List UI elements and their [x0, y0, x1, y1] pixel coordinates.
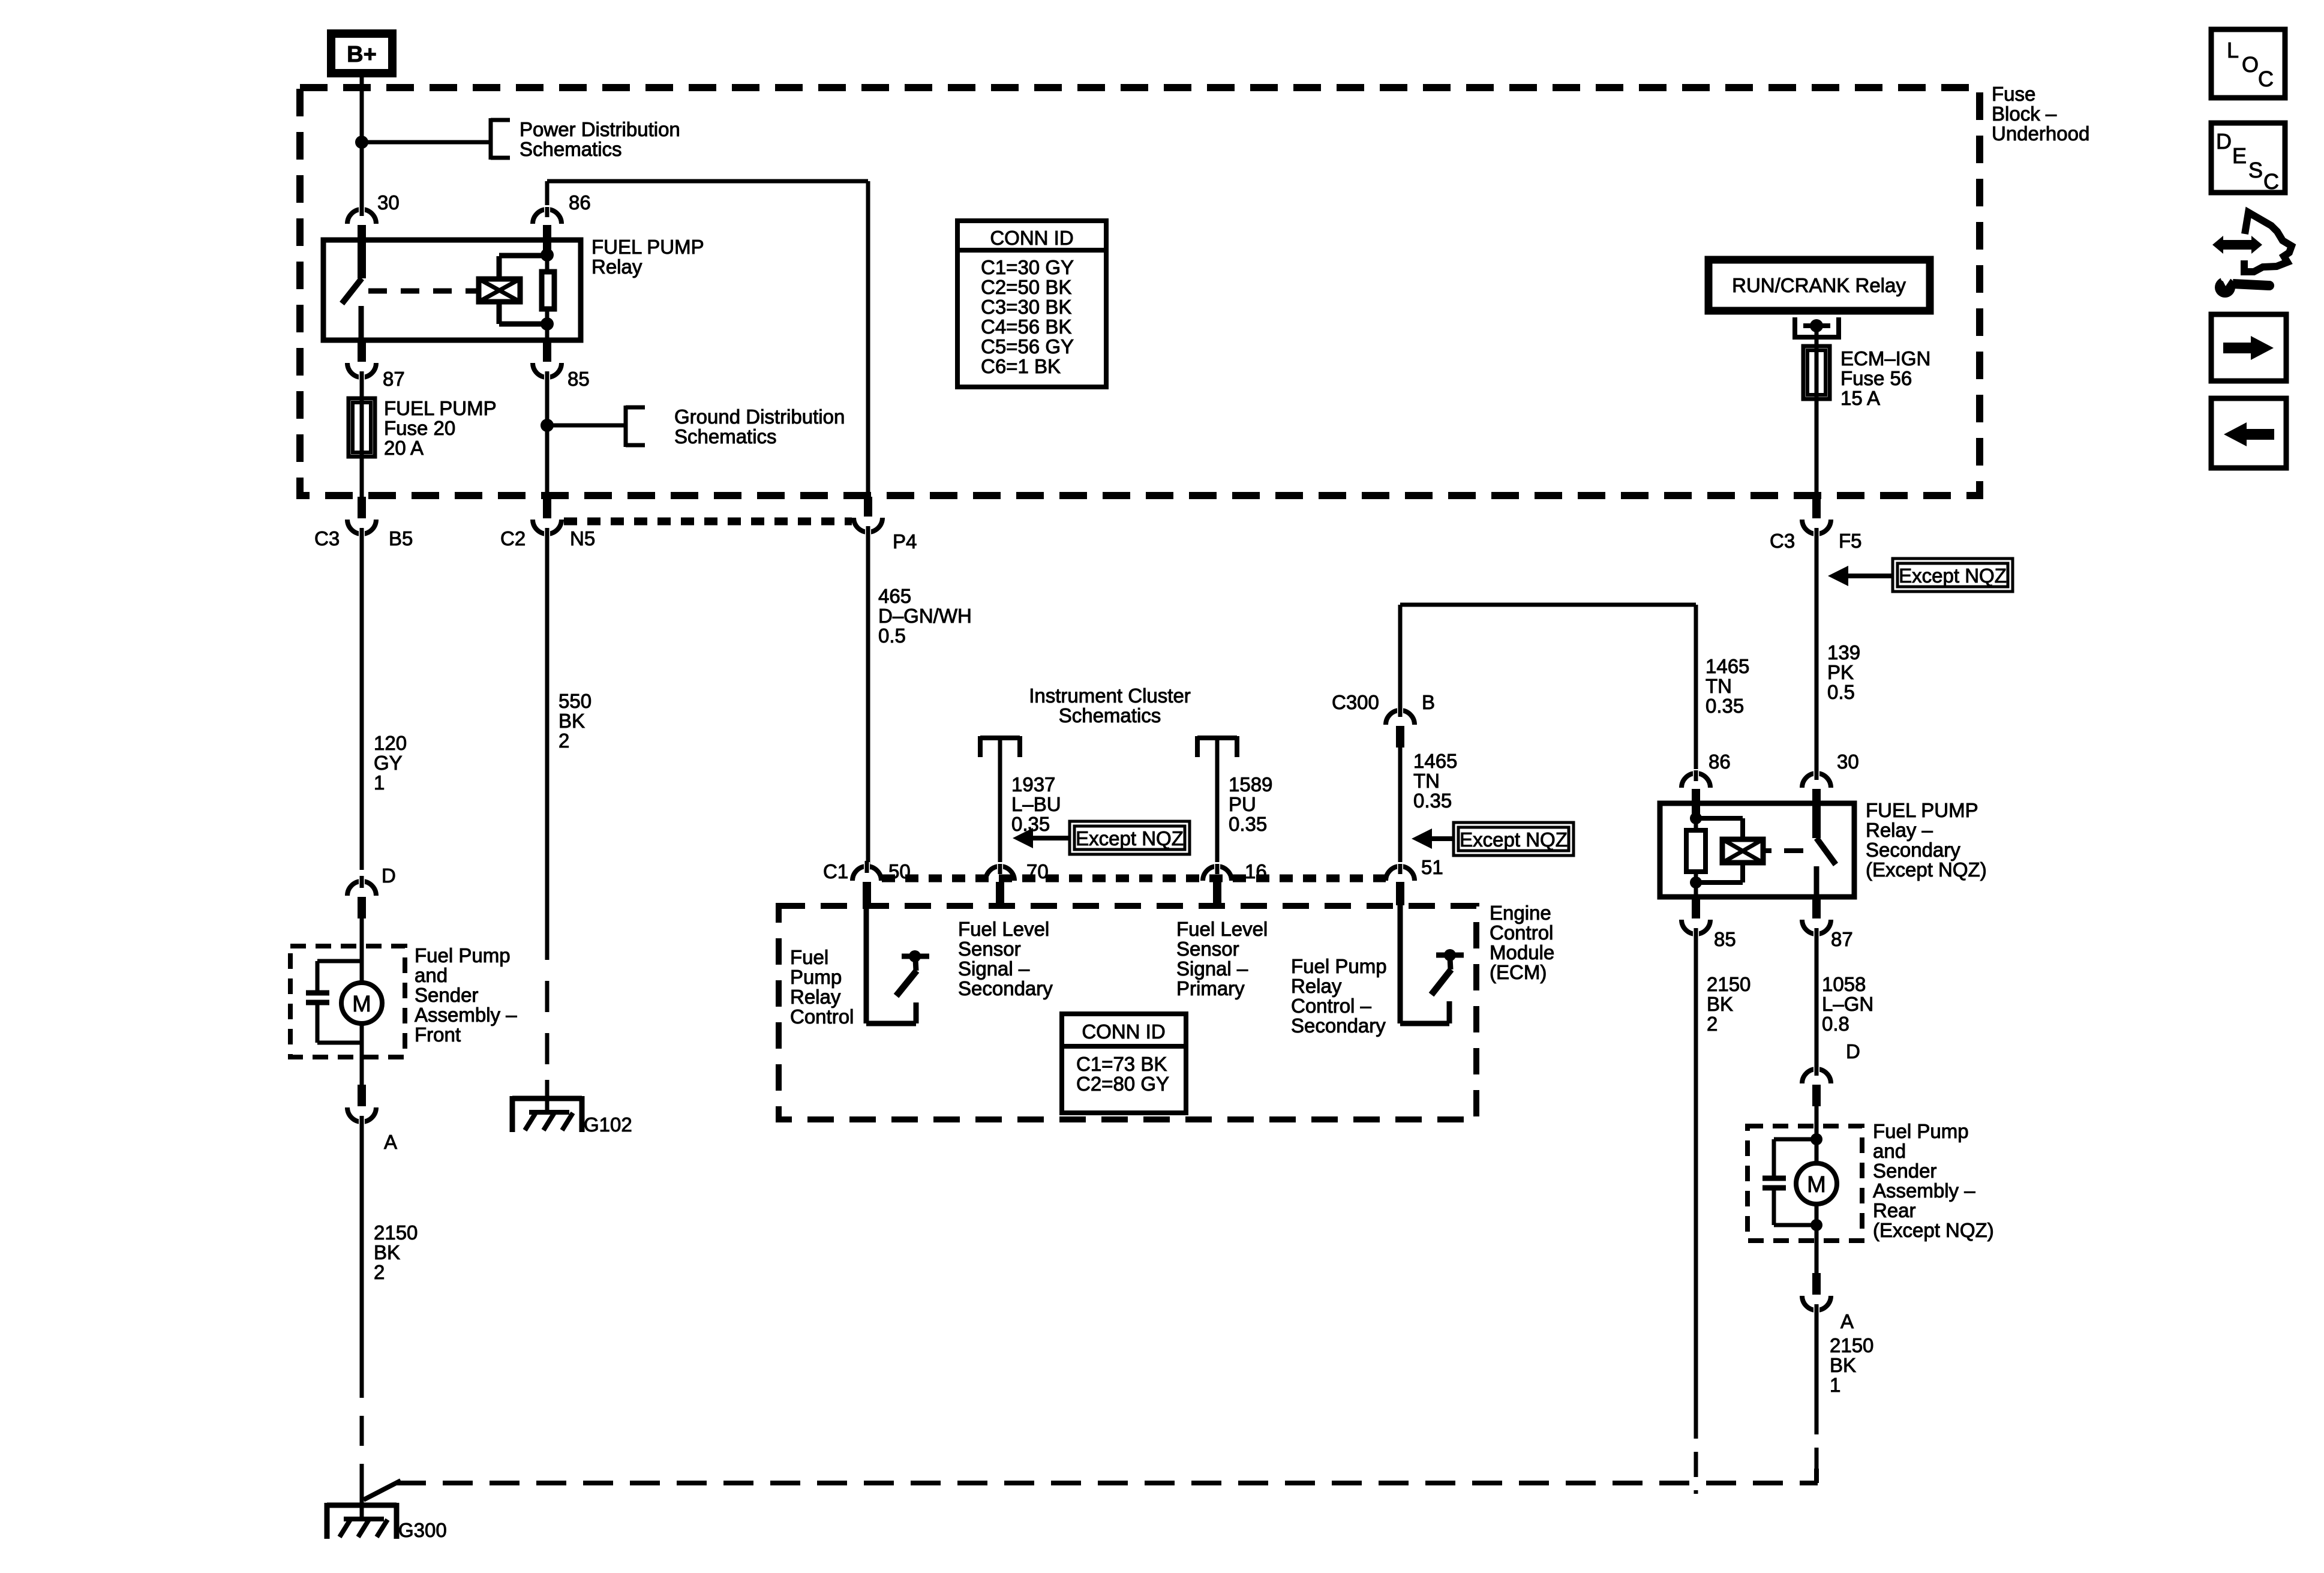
svg-text:CONN ID: CONN ID	[1082, 1020, 1165, 1043]
relay K2 switch blade	[1816, 838, 1836, 864]
wire run/crank relay to fuse 56	[1815, 326, 1819, 498]
connector C3 cavity B5	[358, 497, 366, 518]
svg-text:G300: G300	[398, 1519, 447, 1541]
svg-text:2: 2	[559, 730, 569, 752]
wire dashed to G300	[360, 1368, 364, 1501]
svg-text:Rear: Rear	[1873, 1199, 1916, 1221]
svg-text:M: M	[1807, 1172, 1826, 1197]
svg-text:BK: BK	[1830, 1354, 1856, 1376]
svg-text:B5: B5	[389, 527, 413, 550]
svg-text:2: 2	[374, 1261, 385, 1283]
svg-text:Signal –: Signal –	[958, 957, 1030, 980]
svg-text:Instrument Cluster: Instrument Cluster	[1029, 685, 1191, 707]
svg-text:B+: B+	[347, 42, 377, 67]
svg-text:Secondary: Secondary	[1866, 839, 1960, 861]
connector C300 cavity B	[1386, 710, 1415, 725]
relay K2 FUEL PUMP Relay Secondary box	[1660, 803, 1854, 897]
svg-text:Except NQZ: Except NQZ	[1076, 827, 1184, 849]
wire to ground distribution schematics	[547, 424, 626, 428]
except nqz callout top right	[1893, 559, 2013, 592]
icon LOC box	[2211, 29, 2285, 98]
svg-text:RUN/CRANK Relay: RUN/CRANK Relay	[1732, 274, 1906, 296]
svg-text:C3: C3	[1770, 530, 1795, 552]
svg-text:G102: G102	[584, 1113, 632, 1136]
svg-text:87: 87	[383, 368, 405, 390]
svg-text:Engine: Engine	[1490, 902, 1551, 924]
icon arrow next box	[2211, 314, 2286, 381]
svg-text:Relay: Relay	[1291, 975, 1342, 997]
wire ECM 51 to fuel pump relay secondary 86	[1400, 603, 1696, 607]
relay K1 coil junction nodes	[541, 248, 554, 262]
svg-text:0.35: 0.35	[1706, 695, 1744, 717]
svg-text:86: 86	[569, 191, 591, 214]
relay K1 actuator dashed link	[368, 289, 479, 294]
svg-text:1589: 1589	[1229, 773, 1272, 795]
svg-text:2150: 2150	[374, 1221, 418, 1244]
svg-text:C1=73 BK: C1=73 BK	[1076, 1053, 1167, 1075]
svg-text:PK: PK	[1827, 661, 1854, 683]
connector pin 85 fuel pump relay	[543, 340, 551, 362]
connector pin 85 relay secondary	[1692, 897, 1700, 918]
svg-text:30: 30	[377, 191, 400, 214]
icon vehicle with wrench	[2244, 212, 2292, 272]
svg-text:O: O	[2242, 52, 2259, 77]
svg-text:C3=30 BK: C3=30 BK	[981, 296, 1071, 318]
svg-text:1465: 1465	[1706, 655, 1749, 677]
svg-text:L–BU: L–BU	[1011, 793, 1061, 815]
svg-text:50: 50	[888, 860, 911, 882]
ground tie dashed wire	[364, 1481, 401, 1500]
capacitor rear pump	[1774, 1137, 1816, 1142]
svg-text:C6=1 BK: C6=1 BK	[981, 355, 1061, 377]
svg-text:Underhood: Underhood	[1992, 122, 2089, 145]
svg-text:P4: P4	[893, 530, 917, 553]
svg-text:C300: C300	[1332, 691, 1379, 713]
svg-text:Sensor: Sensor	[1176, 938, 1239, 960]
svg-text:Except NQZ: Except NQZ	[1899, 565, 2007, 587]
svg-text:C: C	[2263, 169, 2279, 194]
svg-text:C2: C2	[500, 527, 526, 550]
motor M front fuel pump	[341, 983, 382, 1023]
svg-text:Except NQZ: Except NQZ	[1460, 828, 1568, 851]
svg-text:Module: Module	[1490, 941, 1554, 963]
svg-text:C1: C1	[823, 860, 848, 882]
svg-text:20 A: 20 A	[384, 437, 424, 459]
svg-text:(Except NQZ): (Except NQZ)	[1873, 1219, 1994, 1241]
relay K1 resistor	[542, 272, 554, 309]
inline harness dotted line lower	[882, 875, 1386, 882]
svg-text:120: 120	[374, 732, 407, 754]
svg-text:Ground Distribution: Ground Distribution	[674, 406, 845, 428]
svg-text:E: E	[2232, 143, 2247, 168]
svg-text:TN: TN	[1706, 675, 1732, 697]
svg-text:Relay: Relay	[591, 256, 642, 278]
connector pin 16	[1203, 866, 1232, 881]
svg-text:F5: F5	[1839, 530, 1862, 552]
connector pin 86 fuel pump relay	[533, 209, 562, 224]
relay K2 switch fixed contact	[1814, 866, 1819, 897]
svg-text:C1=30 GY: C1=30 GY	[981, 256, 1074, 278]
run/crank relay output bracket	[1792, 317, 1797, 340]
connector D rear pump	[1802, 1069, 1831, 1083]
ECM driver switch 2	[1436, 953, 1464, 958]
svg-text:L: L	[2227, 38, 2239, 62]
svg-text:Fuel Pump: Fuel Pump	[1873, 1120, 1969, 1142]
relay K1 switch fixed contact	[359, 306, 364, 340]
inline harness dotted line upper	[564, 518, 852, 526]
svg-text:Fuel Pump: Fuel Pump	[1291, 955, 1387, 977]
ECM driver switch 2 wire	[1398, 905, 1403, 1023]
svg-text:Pump: Pump	[790, 966, 842, 988]
svg-text:Sender: Sender	[1873, 1160, 1936, 1182]
svg-text:Fuel Pump: Fuel Pump	[415, 944, 511, 966]
svg-text:C5=56 GY: C5=56 GY	[981, 335, 1074, 358]
svg-text:TN: TN	[1413, 770, 1440, 792]
svg-text:D–GN/WH: D–GN/WH	[878, 605, 972, 627]
connector C1 cavity 50	[852, 866, 881, 881]
wire cluster to pin 70	[998, 740, 1002, 871]
svg-text:87: 87	[1831, 928, 1853, 950]
wire through rear pump	[1815, 1126, 1819, 1163]
svg-text:Sender: Sender	[415, 984, 478, 1006]
svg-text:(ECM): (ECM)	[1490, 961, 1547, 983]
svg-text:S: S	[2248, 158, 2263, 182]
svg-text:L–GN: L–GN	[1822, 993, 1873, 1015]
relay K2 coil junction nodes	[1690, 812, 1702, 824]
capacitor front pump	[317, 959, 362, 963]
fuse F2 ECM-IGN Fuse 56	[1803, 346, 1830, 399]
svg-text:Assembly –: Assembly –	[415, 1004, 517, 1026]
svg-text:0.35: 0.35	[1229, 813, 1267, 835]
svg-text:BK: BK	[559, 710, 585, 732]
fuse block - underhood dashed boundary	[300, 88, 1980, 496]
except nqz callout cluster	[1070, 821, 1190, 854]
svg-text:0.5: 0.5	[1827, 681, 1855, 703]
svg-text:Schematics: Schematics	[1059, 704, 1161, 727]
svg-text:Fuel: Fuel	[790, 946, 828, 968]
connector pin 87 relay secondary	[1812, 897, 1821, 918]
off-page bracket instrument cluster right	[1197, 736, 1237, 740]
connector pin 30 fuel pump relay	[347, 209, 376, 224]
svg-text:86: 86	[1709, 751, 1731, 773]
ECM driver switch 1	[902, 954, 929, 959]
relay K2 resistor	[1686, 830, 1706, 872]
svg-text:15 A: 15 A	[1840, 387, 1880, 409]
svg-text:C2=80 GY: C2=80 GY	[1076, 1073, 1169, 1095]
svg-text:BK: BK	[1707, 993, 1733, 1015]
conn id table fuse block	[957, 221, 1106, 387]
svg-text:Control –: Control –	[1291, 995, 1372, 1017]
svg-text:C3: C3	[314, 527, 340, 550]
svg-text:16: 16	[1245, 860, 1267, 882]
svg-text:C2=50 BK: C2=50 BK	[981, 276, 1071, 298]
svg-text:70: 70	[1026, 860, 1049, 882]
ground G102	[512, 1096, 582, 1101]
svg-text:C4=56 BK: C4=56 BK	[981, 316, 1071, 338]
svg-text:Schematics: Schematics	[674, 425, 777, 448]
svg-text:Primary: Primary	[1176, 977, 1245, 999]
svg-text:2: 2	[1707, 1013, 1718, 1035]
svg-text:Fuel Level: Fuel Level	[1176, 918, 1268, 940]
svg-text:Front: Front	[415, 1023, 461, 1046]
svg-text:Block –: Block –	[1992, 103, 2057, 125]
relay K1 coil	[479, 279, 520, 302]
rear pump junction nodes	[1810, 1133, 1822, 1145]
svg-text:1058: 1058	[1822, 973, 1866, 995]
svg-text:M: M	[352, 992, 371, 1017]
svg-text:PU: PU	[1229, 793, 1256, 815]
off-page bracket instrument cluster left	[980, 736, 1020, 740]
connector pin 70	[986, 866, 1014, 881]
wire dashed rear pump ground	[1815, 1409, 1819, 1469]
svg-text:C: C	[2258, 67, 2274, 91]
svg-text:A: A	[384, 1131, 397, 1153]
svg-text:N5: N5	[570, 527, 595, 550]
motor M rear fuel pump	[1796, 1163, 1837, 1204]
wire through front pump	[360, 946, 364, 983]
connector pin 30 relay secondary	[1802, 773, 1831, 788]
engine control module dashed box	[779, 906, 1476, 1119]
wire relay pin 86 feed	[547, 179, 868, 184]
svg-text:1465: 1465	[1413, 750, 1457, 772]
wire to power distribution schematics	[362, 140, 491, 145]
svg-text:1937: 1937	[1011, 773, 1055, 795]
svg-text:Secondary: Secondary	[1291, 1014, 1386, 1037]
svg-text:FUEL PUMP: FUEL PUMP	[1866, 799, 1978, 821]
icon DESC box	[2211, 123, 2285, 193]
svg-text:BK: BK	[374, 1241, 400, 1263]
wire dashed to G102	[545, 929, 550, 1095]
fuse F1 FUEL PUMP Fuse 20	[360, 398, 364, 498]
svg-text:2150: 2150	[1830, 1334, 1873, 1356]
svg-text:Secondary: Secondary	[958, 977, 1053, 999]
svg-text:and: and	[415, 964, 448, 986]
ECM driver switch 1 wire	[864, 905, 869, 1023]
relay K1 FUEL PUMP Relay box	[323, 240, 581, 340]
svg-text:85: 85	[568, 368, 590, 390]
svg-text:0.5: 0.5	[878, 625, 906, 647]
svg-text:D: D	[1846, 1040, 1860, 1062]
svg-text:51: 51	[1421, 856, 1443, 878]
svg-text:0.8: 0.8	[1822, 1013, 1849, 1035]
connector C2 cavity N5	[543, 497, 551, 518]
relay K3 RUN/CRANK Relay box	[1709, 260, 1930, 311]
except nqz callout c300	[1454, 822, 1574, 855]
svg-text:85: 85	[1714, 928, 1736, 950]
svg-text:Signal –: Signal –	[1176, 957, 1248, 980]
svg-text:ECM–IGN: ECM–IGN	[1840, 347, 1930, 370]
connector pin 51	[1386, 866, 1415, 881]
ground G300	[327, 1503, 397, 1508]
svg-text:Schematics: Schematics	[520, 138, 622, 160]
svg-text:1: 1	[374, 772, 385, 794]
svg-text:1: 1	[1830, 1374, 1840, 1396]
connector pin 87 fuel pump relay	[358, 340, 366, 362]
icon arrow back box	[2211, 398, 2286, 468]
svg-text:Fuse: Fuse	[1992, 83, 2035, 105]
off-page bracket power distribution	[489, 118, 493, 160]
svg-text:Control: Control	[790, 1005, 854, 1028]
svg-text:FUEL PUMP: FUEL PUMP	[384, 397, 497, 419]
svg-text:Power Distribution: Power Distribution	[520, 118, 680, 140]
svg-text:A: A	[1840, 1310, 1854, 1332]
connector C3 cavity F5	[1812, 497, 1821, 518]
fuel pump and sender assembly rear dashed box	[1747, 1126, 1862, 1241]
wire cluster to pin 16	[1215, 740, 1220, 871]
connector A front pump	[358, 1085, 366, 1106]
svg-text:Control: Control	[1490, 921, 1553, 944]
fuel pump and sender assembly front dashed box	[290, 946, 405, 1057]
svg-text:FUEL PUMP: FUEL PUMP	[591, 236, 704, 258]
svg-text:Relay: Relay	[790, 986, 841, 1008]
node run/crank relay output	[1810, 319, 1823, 332]
svg-text:CONN ID: CONN ID	[990, 227, 1073, 249]
relay K2 coil	[1722, 839, 1763, 863]
svg-text:139: 139	[1827, 641, 1860, 664]
svg-text:0.35: 0.35	[1413, 789, 1452, 812]
svg-text:and: and	[1873, 1140, 1906, 1162]
svg-text:D: D	[382, 864, 396, 887]
svg-text:(Except NQZ): (Except NQZ)	[1866, 858, 1987, 881]
node junction on B+ wire	[355, 136, 368, 149]
svg-text:Sensor: Sensor	[958, 938, 1021, 960]
wire B+ to relay pin 30	[360, 73, 364, 213]
connector A rear pump	[1812, 1273, 1821, 1295]
wire dashed relay 85 to ground run	[1694, 1413, 1698, 1494]
svg-text:B: B	[1422, 691, 1435, 713]
svg-text:2150: 2150	[1707, 973, 1750, 995]
svg-text:Assembly –: Assembly –	[1873, 1179, 1975, 1202]
conn id table ECM	[1062, 1014, 1186, 1113]
svg-text:30: 30	[1837, 751, 1859, 773]
battery feed B+ terminal	[331, 34, 392, 73]
svg-text:Fuel Level: Fuel Level	[958, 918, 1049, 940]
svg-text:550: 550	[559, 690, 591, 712]
svg-text:GY: GY	[374, 752, 403, 774]
svg-text:Fuse 56: Fuse 56	[1840, 367, 1912, 389]
svg-text:465: 465	[878, 585, 911, 607]
relay K2 actuator dashed link	[1763, 848, 1771, 853]
off-page bracket ground distribution	[624, 406, 628, 447]
svg-text:D: D	[2216, 129, 2232, 154]
connector pin 86 relay secondary	[1694, 605, 1698, 780]
relay K1 switch blade	[342, 278, 362, 304]
svg-text:Relay –: Relay –	[1866, 819, 1933, 841]
node ground distribution junction	[541, 419, 554, 432]
connector P4	[864, 497, 872, 517]
connector D front pump	[347, 881, 376, 896]
svg-text:Fuse 20: Fuse 20	[384, 417, 455, 439]
